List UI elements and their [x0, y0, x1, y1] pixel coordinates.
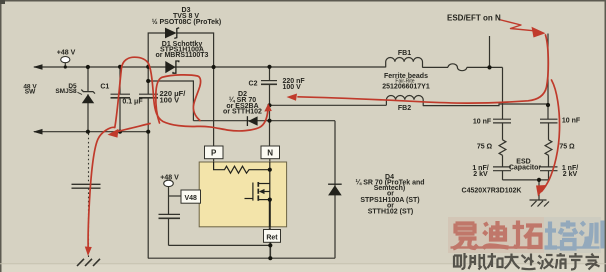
svg-text:C2: C2	[249, 80, 258, 87]
svg-text:+48 V: +48 V	[57, 50, 76, 57]
svg-text:2 kV: 2 kV	[473, 171, 488, 178]
svg-text:10 nF: 10 nF	[473, 119, 492, 126]
svg-text:½ PSOT08C (ProTek): ½ PSOT08C (ProTek)	[152, 18, 222, 26]
svg-text:75 Ω: 75 Ω	[477, 144, 493, 151]
svg-text:10 nF: 10 nF	[562, 118, 581, 125]
svg-text:2 kV: 2 kV	[563, 171, 578, 178]
svg-text:SMJS8: SMJS8	[55, 88, 77, 95]
svg-text:P: P	[211, 149, 217, 158]
svg-text:ESD/EFT on N: ESD/EFT on N	[447, 14, 501, 23]
svg-text:or MBRS1100T3: or MBRS1100T3	[156, 52, 209, 59]
svg-text:+48 V: +48 V	[160, 175, 179, 182]
svg-text:Ret: Ret	[266, 235, 278, 242]
svg-text:FB2: FB2	[398, 105, 411, 112]
svg-text:C4520X7R3D102K: C4520X7R3D102K	[462, 188, 522, 195]
svg-text:SW: SW	[25, 89, 36, 96]
svg-text:FB1: FB1	[398, 50, 411, 57]
svg-text:0.1 μF: 0.1 μF	[122, 99, 143, 106]
svg-text:Fair-Rite: Fair-Rite	[395, 79, 414, 85]
svg-text:N: N	[267, 149, 273, 158]
svg-text:STTH102 (ST): STTH102 (ST)	[368, 209, 414, 216]
svg-text:V48: V48	[184, 195, 197, 202]
svg-text:C1: C1	[100, 84, 109, 91]
svg-text:Capacitor: Capacitor	[509, 165, 542, 172]
svg-text:or STTH102: or STTH102	[223, 109, 262, 116]
svg-text:100 V: 100 V	[283, 84, 302, 91]
svg-text:100 V: 100 V	[160, 96, 180, 105]
svg-text:75 Ω: 75 Ω	[559, 144, 575, 151]
